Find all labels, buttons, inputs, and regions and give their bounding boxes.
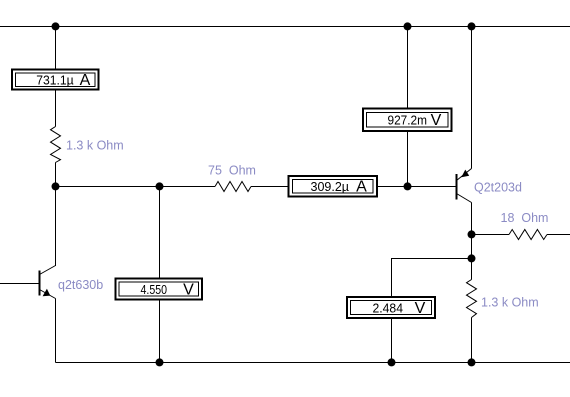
svg-text:309.2µ: 309.2µ <box>311 179 350 194</box>
wire voltmeter M4 to bottom rail <box>159 300 161 363</box>
wire R2 to ammeter M3 <box>251 186 288 188</box>
node junction right-b <box>468 254 476 262</box>
wire q2t630b base lead <box>0 283 40 285</box>
wire mid-left node to transistor q2t630b <box>55 187 57 267</box>
ammeter M3 309.2u A <box>289 176 378 197</box>
wire right node to resistor R3 <box>472 234 510 236</box>
svg-text:4.550: 4.550 <box>141 282 168 297</box>
svg-text:75 Ohm: 75 Ohm <box>208 164 256 178</box>
node junction right-a <box>468 230 476 238</box>
wire voltmeter M2 to mid-right node <box>407 132 409 187</box>
wire mid-center node to voltmeter M4 <box>159 187 161 279</box>
wire R3 to right edge <box>547 234 570 236</box>
node junction bottom-right <box>468 358 476 366</box>
node junction top-right <box>468 22 476 30</box>
svg-text:A: A <box>356 179 367 196</box>
transistor q2t630b <box>40 266 56 299</box>
wire R4 to bottom rail <box>471 318 473 363</box>
node junction mid-right <box>404 182 412 190</box>
voltmeter M4 4.550 V <box>116 279 203 300</box>
wire bottom rail <box>56 362 570 364</box>
svg-text:2.484: 2.484 <box>373 301 404 316</box>
node junction top-middle <box>404 22 412 30</box>
wire ammeter M3 to transistor base <box>378 186 457 188</box>
svg-text:A: A <box>80 72 91 89</box>
node junction mid-left <box>52 182 60 190</box>
wire top rail to ammeter M1 <box>55 27 57 70</box>
node junction bottom-left <box>156 358 164 366</box>
wire ammeter M1 to resistor R1 <box>55 91 57 127</box>
wire node-a to node-b <box>471 235 473 259</box>
svg-text:V: V <box>431 112 442 129</box>
voltmeter M5 2.484 V <box>347 297 435 318</box>
wire node-b to voltmeter M5 branch <box>392 259 472 298</box>
wire mid rail left segment <box>56 186 216 188</box>
resistor R4 1.3k vertical right <box>467 280 477 318</box>
wire q2t630b emitter to bottom rail <box>55 299 57 363</box>
resistor R1 1.3k vertical <box>51 127 61 163</box>
wire top-middle node to voltmeter M2 <box>407 27 409 109</box>
svg-text:927.2m: 927.2m <box>388 113 428 128</box>
wire Q2t203d collector down <box>471 203 473 235</box>
transistor Q2t203d <box>457 169 472 203</box>
resistor R3 18 Ohm <box>509 230 547 240</box>
svg-text:731.1µ: 731.1µ <box>36 73 74 88</box>
wire top rail <box>0 26 570 28</box>
svg-text:V: V <box>415 300 426 317</box>
svg-text:1.3 k Ohm: 1.3 k Ohm <box>66 139 124 153</box>
svg-text:Q2t203d: Q2t203d <box>474 180 522 194</box>
svg-text:18 Ohm: 18 Ohm <box>501 211 549 225</box>
svg-text:V: V <box>183 282 194 299</box>
voltmeter M2 927.2m V <box>363 109 452 132</box>
wire voltmeter M5 to bottom rail <box>391 319 393 363</box>
wire R1 to mid rail <box>55 163 57 187</box>
wire node-b to resistor R4 <box>471 259 473 280</box>
svg-text:1.3 k Ohm: 1.3 k Ohm <box>481 296 539 310</box>
node junction top-left <box>52 22 60 30</box>
node junction bottom-middle <box>388 358 396 366</box>
svg-text:q2t630b: q2t630b <box>58 278 103 292</box>
ammeter M1 731.1u A <box>12 70 99 90</box>
node junction mid-center <box>156 182 164 190</box>
resistor R2 75 Ohm <box>215 182 251 192</box>
wire top-right node to transistor Q2t203d <box>471 27 473 169</box>
